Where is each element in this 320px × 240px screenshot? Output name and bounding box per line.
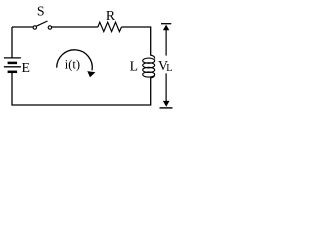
svg-text:E: E	[22, 60, 30, 75]
current direction arc i(t)	[57, 50, 96, 77]
label VL	[158, 58, 172, 74]
label R	[106, 8, 116, 23]
wire: top segment from switch to resistor	[52, 26, 98, 28]
switch S	[33, 21, 52, 29]
svg-text:S: S	[37, 4, 45, 19]
label E	[22, 60, 30, 75]
svg-text:L: L	[130, 59, 138, 74]
wire: top-left segment from corner to switch	[12, 26, 33, 28]
svg-text:R: R	[106, 8, 116, 23]
label S	[37, 4, 45, 19]
voltage indicator VL: top bar	[161, 23, 171, 25]
svg-text:L: L	[166, 63, 172, 74]
label i(t)	[65, 57, 80, 71]
voltage indicator VL: down arrow	[163, 73, 170, 107]
wire: top-right segment from resistor to corner and down to inductor	[122, 27, 151, 56]
voltage indicator VL: up arrow	[163, 25, 169, 56]
svg-text:i(t): i(t)	[65, 57, 80, 71]
resistor R	[98, 22, 122, 31]
battery E	[4, 27, 21, 73]
inductor L coil	[143, 55, 155, 78]
wire: right segment below inductor, bottom wire, left wire up to battery	[12, 73, 151, 105]
voltage indicator VL: bottom bar	[160, 107, 173, 109]
label L	[130, 59, 138, 74]
